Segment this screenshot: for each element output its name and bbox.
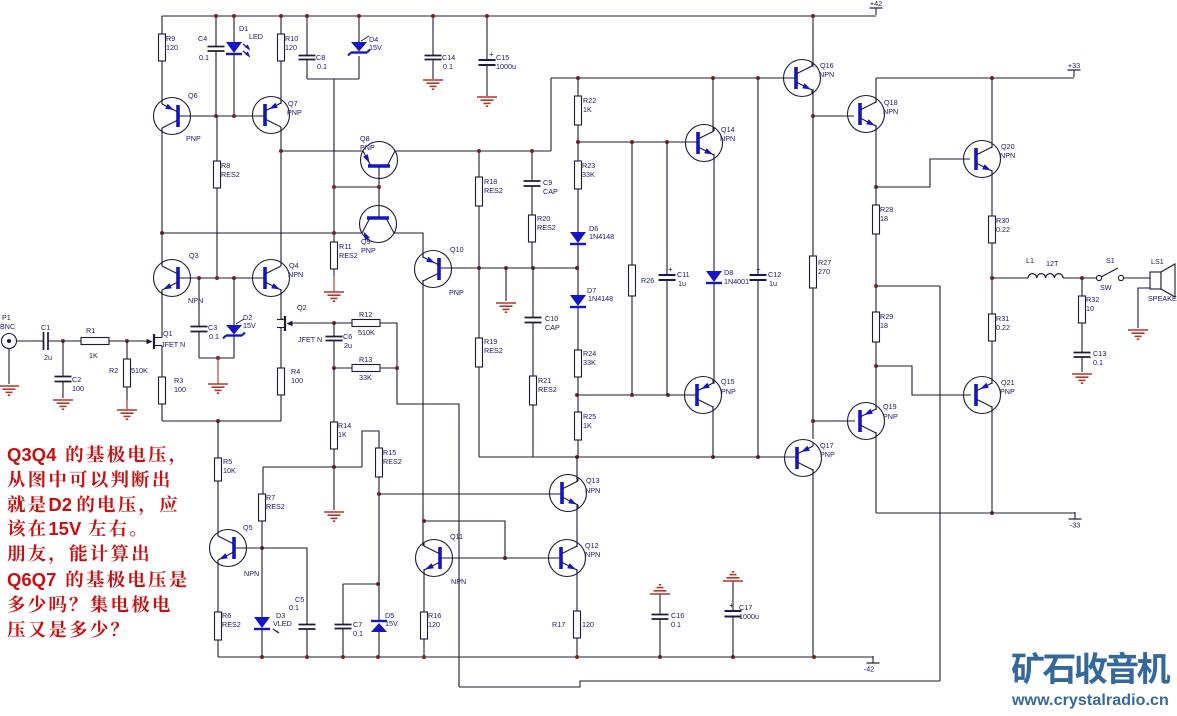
transistor Q7 (PNP) <box>253 97 302 134</box>
ground under P1 <box>0 386 19 395</box>
diode D1 (LED) <box>226 24 263 56</box>
ground under R11 <box>324 276 344 301</box>
svg-text:33K: 33K <box>583 358 596 367</box>
junction <box>504 266 508 270</box>
junction <box>422 655 426 659</box>
note red text line 4 <box>8 518 136 539</box>
wire -33 rail <box>876 512 1075 514</box>
wire C12 top stem <box>757 78 759 274</box>
wire C5 branch <box>262 548 307 624</box>
wire R12 right <box>380 323 397 368</box>
svg-text:R9: R9 <box>166 34 175 43</box>
svg-text:R29: R29 <box>880 312 893 321</box>
svg-text:Q6Q7: Q6Q7 <box>7 569 56 590</box>
ground under LS1 <box>1128 330 1148 339</box>
resistor R25 (1K) <box>575 412 597 440</box>
wire feedback vertical <box>397 368 459 687</box>
svg-text:R32: R32 <box>1086 295 1099 304</box>
svg-text:C4: C4 <box>198 34 207 43</box>
svg-text:NPN: NPN <box>720 134 735 143</box>
svg-text:NPN: NPN <box>883 107 898 116</box>
D3 led arrow <box>273 629 279 633</box>
svg-text:Q9: Q9 <box>361 237 371 246</box>
wire C15 top <box>486 16 488 59</box>
transistor Q1 (JFET N) <box>146 329 185 349</box>
junction <box>216 419 220 423</box>
resistor R27 (270) <box>810 256 832 288</box>
wire C6 top stem <box>333 323 335 336</box>
resistor R32 (10) <box>1079 295 1100 323</box>
junction <box>711 455 715 459</box>
wire D2 top stem <box>233 278 235 325</box>
junction <box>395 366 399 370</box>
wire R13 right <box>380 367 397 369</box>
svg-text:R3: R3 <box>174 376 183 385</box>
junction <box>357 14 361 18</box>
wire Q17 emitter down <box>812 469 814 657</box>
svg-text:RES2: RES2 <box>221 170 240 179</box>
svg-text:15V: 15V <box>48 518 82 539</box>
wire D1 bottom <box>233 53 235 116</box>
junction <box>376 655 380 659</box>
wire Q10 base right <box>441 267 576 269</box>
svg-text:12T: 12T <box>1046 259 1059 268</box>
wire C13 ground stem <box>1081 357 1083 372</box>
connector P1 (BNC) <box>0 313 17 349</box>
junction <box>305 14 309 18</box>
svg-text:Q4: Q4 <box>289 261 299 270</box>
wire C8 bottom <box>306 60 308 79</box>
capacitor C2 (100) <box>55 375 85 393</box>
svg-text:R7: R7 <box>266 493 275 502</box>
svg-text:R12: R12 <box>359 310 372 319</box>
wire D8 to Q15 <box>713 284 715 384</box>
svg-text:510K: 510K <box>358 328 375 337</box>
junction <box>711 76 715 80</box>
wire feedback bottom <box>459 681 940 687</box>
transistor Q18 (NPN) <box>848 96 899 133</box>
junction <box>422 519 426 523</box>
wire x813 chain <box>812 116 814 256</box>
resistor R6 (RES2) <box>215 611 241 640</box>
wire Q11 collector link <box>424 521 505 557</box>
wire bottom rail <box>218 656 873 658</box>
svg-text:0.1: 0.1 <box>289 603 299 612</box>
resistor R8 (RES2) <box>214 161 240 188</box>
junction <box>232 276 236 280</box>
svg-text:1000u: 1000u <box>739 612 759 621</box>
capacitor C6 (2u) <box>326 332 353 350</box>
transistor Q3 (NPN) <box>154 251 204 305</box>
wire R7 to D3 vertical <box>261 494 263 617</box>
svg-text:LED: LED <box>249 32 263 41</box>
wire R15 jog <box>362 431 379 467</box>
wire R4 bottom <box>280 395 282 421</box>
note red text line 2 <box>7 470 169 487</box>
wire D4 top <box>358 16 360 42</box>
wire C16 bottom <box>659 619 661 657</box>
svg-text:D8: D8 <box>724 268 733 277</box>
svg-text:0.1: 0.1 <box>199 53 209 62</box>
wire P1 ground stem <box>8 349 10 384</box>
wire Q21 base path <box>876 366 971 395</box>
diode D4 (15V) <box>348 35 382 56</box>
wire R9 bottom to Q6 <box>161 61 163 104</box>
svg-text:Q18: Q18 <box>884 98 898 107</box>
junction <box>874 284 878 288</box>
resistor R18 (RES2) <box>476 177 503 206</box>
svg-text:Q17: Q17 <box>820 441 834 450</box>
junction <box>990 276 994 280</box>
svg-text:LS1: LS1 <box>1151 257 1164 266</box>
wire Q5 emitter down <box>217 560 219 612</box>
speaker LS1 <box>1148 257 1177 303</box>
wire Q3-Q4 base <box>178 277 265 279</box>
wire L1 to S1 <box>1063 277 1096 279</box>
junction <box>477 149 481 153</box>
capacitor C7 (0.1) <box>335 620 364 638</box>
junction <box>990 76 994 80</box>
svg-text:L1: L1 <box>1026 256 1034 265</box>
wire link x334 to Q8 base <box>334 186 379 188</box>
svg-text:NPN: NPN <box>188 296 203 305</box>
power port +42 <box>870 0 883 15</box>
resistor R9 (120) <box>159 34 179 61</box>
resistor R11 (RES2) <box>331 242 358 269</box>
junction <box>874 185 878 189</box>
svg-text:Q19: Q19 <box>883 402 897 411</box>
ground under C13 <box>1072 374 1092 383</box>
wire P1 to C1 <box>17 340 43 342</box>
junction <box>811 419 815 423</box>
capacitor C3 (0.1) <box>191 323 220 341</box>
svg-text:R19: R19 <box>484 337 497 346</box>
svg-text:RES2: RES2 <box>222 620 241 629</box>
wire C5 bottom <box>306 629 308 657</box>
svg-text:CAP: CAP <box>545 323 560 332</box>
svg-text:Q21: Q21 <box>1001 378 1015 387</box>
ground under C2 <box>53 400 73 409</box>
wire C3 top stem <box>198 278 200 326</box>
svg-text:R14: R14 <box>338 421 351 430</box>
wire Q12 emitter down <box>576 569 578 611</box>
junction <box>232 14 236 18</box>
resistor R20 (RES2) <box>529 214 556 242</box>
svg-text:RES2: RES2 <box>538 385 557 394</box>
wire Q1 drain up <box>161 290 163 338</box>
wire R23-D6 link <box>577 189 579 232</box>
svg-text:100: 100 <box>72 384 84 393</box>
wire output to L1 <box>992 277 1028 279</box>
wire Q20 collector up <box>991 78 993 148</box>
svg-text:Q20: Q20 <box>1001 142 1015 151</box>
junction <box>332 366 336 370</box>
ground above C16 <box>650 585 670 594</box>
svg-text:1N4148: 1N4148 <box>589 232 614 241</box>
diode D5 (15V) <box>371 611 398 632</box>
svg-text:270: 270 <box>818 267 830 276</box>
wire R10 bottom to Q7 <box>280 61 282 104</box>
junction <box>61 339 65 343</box>
wire Q1 source down <box>161 346 163 378</box>
watermark text 矿石收音机 <box>1012 652 1170 684</box>
resistor R26 (RES2) <box>629 265 655 296</box>
wire C7 stem <box>342 584 344 624</box>
svg-text:Q2: Q2 <box>297 303 307 312</box>
svg-text:1u: 1u <box>678 279 686 288</box>
junction <box>874 364 878 368</box>
svg-text:0.22: 0.22 <box>996 323 1010 332</box>
junction <box>630 140 634 144</box>
svg-text:Q3Q4: Q3Q4 <box>7 444 57 465</box>
note red text line 6 <box>7 569 187 590</box>
svg-text:120: 120 <box>285 43 297 52</box>
watermark url www.crystalradio.cn <box>1011 692 1169 709</box>
junction <box>341 655 345 659</box>
svg-text:D1: D1 <box>239 24 248 33</box>
wire Q18 emitter down <box>875 125 877 205</box>
svg-text:R6: R6 <box>222 611 231 620</box>
wire C14 bottom <box>432 60 434 79</box>
wire base row y78 <box>551 77 795 79</box>
capacitor C9 (CAP) <box>524 178 558 196</box>
svg-text:PNP: PNP <box>820 450 835 459</box>
svg-text:R22: R22 <box>583 96 596 105</box>
wire R28-R29 tap <box>876 285 940 287</box>
svg-text:33K: 33K <box>582 170 595 179</box>
svg-text:PNP: PNP <box>186 134 201 143</box>
wire R10 top <box>280 16 282 34</box>
svg-text:0.1: 0.1 <box>353 629 363 638</box>
svg-text:RES2: RES2 <box>484 346 503 355</box>
wire input bottom rail <box>162 420 281 422</box>
svg-text:1K: 1K <box>583 105 592 114</box>
svg-text:120: 120 <box>166 43 178 52</box>
svg-text:Q10: Q10 <box>450 245 464 254</box>
wire R5 tap <box>217 421 219 458</box>
wire C15 bottom <box>486 66 488 96</box>
wire Q11 base row <box>440 557 561 559</box>
wire C7 branch <box>343 583 379 585</box>
wire Q6-Q7 base <box>178 115 265 117</box>
svg-text:Q1: Q1 <box>163 329 173 338</box>
svg-text:Q7: Q7 <box>288 99 298 108</box>
svg-text:+42: +42 <box>870 0 882 8</box>
wire C11 bottom stem <box>666 280 668 395</box>
svg-text:CAP: CAP <box>543 187 558 196</box>
wire Q6 collector down <box>161 128 163 266</box>
junction <box>485 14 489 18</box>
svg-text:C1: C1 <box>41 323 50 332</box>
capacitor C13 (0.1) <box>1074 349 1107 367</box>
junction <box>216 356 220 360</box>
junction <box>214 14 218 18</box>
wire C8 top <box>306 16 308 55</box>
junction <box>575 266 579 270</box>
svg-text:R8: R8 <box>221 161 230 170</box>
wire R8 top <box>216 116 218 161</box>
wire R32-C13 link <box>1081 323 1083 352</box>
wire Q14 emitter to D8 <box>713 154 715 271</box>
wire y142 row <box>578 141 697 143</box>
junction <box>1080 276 1084 280</box>
svg-text:0.1: 0.1 <box>209 332 219 341</box>
wire S1 to LS1 <box>1124 277 1150 279</box>
svg-text:100: 100 <box>174 385 186 394</box>
svg-text:+: + <box>729 601 734 610</box>
resistor R13 (33K) <box>352 355 380 382</box>
wire Q2 gate right <box>293 322 352 324</box>
wire Q7-Q8 link <box>281 150 363 152</box>
power port +33 <box>1068 61 1081 77</box>
wire C10 top stem <box>532 268 534 317</box>
svg-text:1N4148: 1N4148 <box>588 294 613 303</box>
wire Q20 emitter down <box>991 170 993 216</box>
junction <box>376 582 380 586</box>
svg-text:RES2: RES2 <box>484 186 503 195</box>
svg-text:R10: R10 <box>285 34 298 43</box>
diode D8 (1N4001) <box>706 268 749 286</box>
svg-text:R18: R18 <box>484 177 497 186</box>
wire feedback up right <box>939 286 941 681</box>
svg-text:R26: R26 <box>641 276 654 285</box>
resistor R15 (RES2) <box>376 448 402 477</box>
svg-text:R1: R1 <box>86 326 95 335</box>
ground under C14 <box>423 80 443 89</box>
svg-text:PNP: PNP <box>361 246 376 255</box>
wire C7 bottom <box>342 628 344 657</box>
wire R28-R29 node v <box>875 234 877 312</box>
ground mid <box>496 303 516 312</box>
resistor R14 (1K) <box>331 421 352 449</box>
junction <box>665 140 669 144</box>
ground under C3/D2 <box>208 358 228 393</box>
svg-text:1N4001: 1N4001 <box>724 277 749 286</box>
wire C11 top stem <box>666 142 668 274</box>
junction <box>990 511 994 515</box>
wire Q8 collector right <box>395 150 551 152</box>
wire R3 bottom <box>161 404 163 421</box>
svg-text:33K: 33K <box>359 373 372 382</box>
wire R11 bottom stem <box>333 269 335 276</box>
svg-text:510K: 510K <box>131 366 148 375</box>
note red text line 7 <box>8 595 170 613</box>
wire bias node down <box>333 79 335 242</box>
svg-text:D2: D2 <box>48 494 72 515</box>
note red text line 1 <box>7 444 173 465</box>
resistor R28 (18) <box>873 205 894 234</box>
svg-text:Q11: Q11 <box>450 532 463 541</box>
svg-text:R28: R28 <box>880 205 893 214</box>
wire D3 bottom <box>261 630 263 657</box>
svg-text:RES2: RES2 <box>339 251 358 260</box>
junction <box>332 231 336 235</box>
svg-text:1u: 1u <box>769 279 777 288</box>
wire R32 top stem <box>1081 278 1083 296</box>
transistor Q16 (NPN) <box>784 60 835 97</box>
svg-text:NPN: NPN <box>451 577 466 586</box>
junction <box>214 114 218 118</box>
svg-text:0.1: 0.1 <box>1093 358 1103 367</box>
wire R22-R23 node <box>577 125 579 161</box>
svg-text:-33: -33 <box>1070 521 1080 530</box>
capacitor C4 (0.1) <box>198 34 225 62</box>
svg-text:R31: R31 <box>996 314 1009 323</box>
svg-text:R5: R5 <box>223 457 232 466</box>
svg-text:18: 18 <box>880 214 888 223</box>
resistor R10 (120) <box>278 34 299 61</box>
wire D6-D7 link <box>577 245 579 295</box>
capacitor C15 (1000u) <box>479 50 517 71</box>
svg-text:100: 100 <box>291 376 303 385</box>
wire R18 chain top <box>478 151 480 177</box>
capacitor C11 (1u) <box>659 265 690 288</box>
wire C17 stem up <box>732 581 734 610</box>
svg-text:VLED: VLED <box>273 619 292 628</box>
svg-text:PNP: PNP <box>449 288 464 297</box>
wire LS1 return <box>1138 288 1150 328</box>
junction <box>332 321 336 325</box>
wire R29 bottom <box>875 342 877 410</box>
junction <box>377 185 381 189</box>
wire C6 bottom stem <box>333 341 335 368</box>
junction <box>332 465 336 469</box>
transistor Q2 (JFET N) <box>277 303 322 344</box>
wire y457 row <box>479 456 796 458</box>
wire R9 top <box>161 16 163 34</box>
svg-text:NPN: NPN <box>585 550 600 559</box>
ground under C15 <box>477 97 497 106</box>
svg-text:C17: C17 <box>739 603 752 612</box>
svg-text:PNP: PNP <box>883 412 898 421</box>
svg-text:C16: C16 <box>671 611 684 620</box>
junction <box>477 266 481 270</box>
svg-text:15V: 15V <box>243 321 256 330</box>
svg-text:C15: C15 <box>496 53 509 62</box>
junction <box>232 114 236 118</box>
svg-text:Q5: Q5 <box>243 523 253 532</box>
junction <box>811 14 815 18</box>
resistor R1 (1K) <box>81 326 109 360</box>
wire Q20 base path <box>876 159 970 187</box>
wire Q4 collector down to Q2 <box>281 289 283 319</box>
capacitor C12 (1u) <box>750 265 782 288</box>
svg-text:10K: 10K <box>223 466 236 475</box>
junction <box>811 114 815 118</box>
wire C9 top stem <box>531 151 533 181</box>
transistor Q14 (NPN) <box>686 125 736 162</box>
diode D3 (VLED) <box>254 611 292 629</box>
note red text line 5 <box>7 544 148 564</box>
transistor Q11 (NPN) <box>416 532 467 586</box>
wire R15 to D5 <box>378 477 380 621</box>
resistor R29 (18) <box>873 312 894 342</box>
svg-text:R17: R17 <box>552 620 565 629</box>
wire Q19 emitter down <box>875 432 877 513</box>
resistor R19 (RES2) <box>476 337 503 367</box>
svg-text:R27: R27 <box>818 258 831 267</box>
svg-text:RES2: RES2 <box>383 457 402 466</box>
svg-text:1K: 1K <box>583 421 592 430</box>
wire C4 bottom <box>215 51 217 116</box>
svg-text:R30: R30 <box>996 216 1009 225</box>
wire R8 bottom <box>216 188 218 278</box>
junction <box>260 655 264 659</box>
svg-text:RES2: RES2 <box>266 502 285 511</box>
wire C8-D4 link <box>307 78 359 80</box>
svg-text:0.1: 0.1 <box>317 62 327 71</box>
wire R21 bottom <box>532 405 534 457</box>
